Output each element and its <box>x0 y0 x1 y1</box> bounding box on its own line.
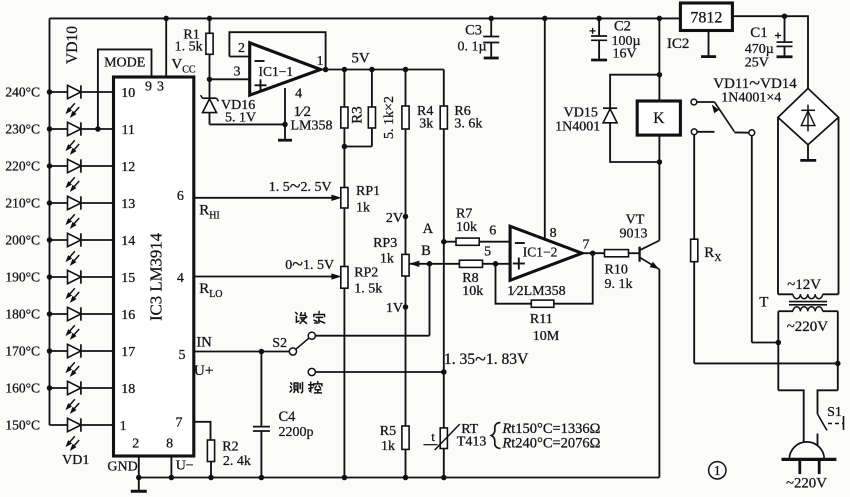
svg-text:~220V: ~220V <box>786 476 827 492</box>
svg-text:13: 13 <box>121 197 135 212</box>
LED VD5 <box>50 276 68 278</box>
capacitor C2 100u 16V <box>598 18 600 36</box>
wire 5V output rail <box>321 69 444 71</box>
svg-text:C2: C2 <box>614 19 631 35</box>
wire +12V top rail <box>50 17 681 19</box>
wire collector up to relay <box>658 135 660 240</box>
svg-text:1N4001: 1N4001 <box>555 119 600 134</box>
wire ground rail <box>139 477 660 479</box>
node bus junction <box>47 200 53 206</box>
resistor R8 10k <box>430 263 460 265</box>
node VD15 bottom junction <box>657 159 663 165</box>
svg-text:R5: R5 <box>380 424 396 439</box>
node R3 pair junction <box>342 144 348 150</box>
LED VD10 <box>50 91 68 93</box>
capacitor C4 2200p <box>260 352 262 427</box>
svg-text:U+: U+ <box>194 362 214 379</box>
wire pin2 stub <box>138 456 140 478</box>
node bus junction <box>47 89 53 95</box>
svg-text:IC3 LM3914: IC3 LM3914 <box>147 232 166 321</box>
svg-text:5: 5 <box>484 245 491 260</box>
LED VD1 <box>50 424 68 426</box>
node rail-R1 junction <box>207 16 213 22</box>
node bus junction <box>47 385 53 391</box>
svg-text:1k: 1k <box>381 439 395 454</box>
node output-feedback junction <box>323 67 329 73</box>
node MODE-pin11 junction <box>95 126 101 132</box>
svg-text:Rt240°C=2076Ω: Rt240°C=2076Ω <box>501 436 600 452</box>
svg-text:IN: IN <box>196 335 212 351</box>
wire pin 4 to ground <box>284 88 286 140</box>
svg-text:6: 6 <box>489 223 496 238</box>
svg-text:3k: 3k <box>419 116 433 131</box>
svg-text:1k: 1k <box>356 200 370 215</box>
relay contact common terminal <box>749 130 755 136</box>
svg-text:U−: U− <box>176 458 194 473</box>
svg-text:230°C: 230°C <box>5 122 40 137</box>
svg-text:1. 5k: 1. 5k <box>175 40 203 55</box>
wire measure contact to RT node <box>315 371 443 373</box>
svg-text:15: 15 <box>121 271 135 286</box>
node B junction <box>427 261 433 267</box>
wire LED cathode to pin <box>81 165 114 167</box>
svg-text:160°C: 160°C <box>5 381 40 396</box>
label SheDing (set) <box>296 312 298 314</box>
svg-text:B: B <box>421 243 431 259</box>
svg-text:18: 18 <box>121 382 135 397</box>
wire relay supply <box>658 18 660 101</box>
op-amp plus sign <box>255 84 267 86</box>
op-amp U1A IC1-1 <box>250 43 321 95</box>
capacitor C1 470u 25V <box>784 16 786 42</box>
wire emitter down to rail <box>658 269 660 477</box>
svg-text:C3: C3 <box>465 23 482 39</box>
node primary right junction <box>835 361 841 367</box>
node primary left junction <box>776 340 782 346</box>
relay coil K <box>637 101 680 135</box>
wire primary left down <box>777 311 779 390</box>
switch S2 blade <box>296 338 309 349</box>
zener diode VD16 5.1V <box>209 79 211 98</box>
wire pin 3 input <box>210 78 250 80</box>
svg-text:150°C: 150°C <box>5 418 40 433</box>
resistor R10 9.1k <box>605 250 629 257</box>
wire RP3 wiper node B <box>409 263 429 265</box>
wire LED cathode to pin <box>81 202 114 204</box>
svg-text:1V: 1V <box>386 301 403 316</box>
MODE box <box>98 49 152 129</box>
svg-text:GND: GND <box>107 459 137 474</box>
svg-text:17: 17 <box>121 345 135 360</box>
wire LED cathode to pin <box>81 128 114 130</box>
wire pin5 IN <box>194 351 289 353</box>
node VD15 top junction <box>657 72 663 78</box>
svg-text:6: 6 <box>177 189 184 204</box>
op-amp plus sign <box>513 263 525 265</box>
switch S2 common <box>289 348 296 355</box>
resistor R3 5.1k <box>343 70 345 108</box>
label CeKong (monitor) <box>291 383 292 385</box>
potentiometer RP3 1k <box>402 254 409 276</box>
switch S2 measure contact <box>308 368 315 375</box>
relay contact top terminal <box>691 99 697 105</box>
svg-text:IC2: IC2 <box>667 36 690 52</box>
svg-text:R11: R11 <box>530 312 553 327</box>
C1 plus sign <box>775 35 781 37</box>
svg-text:1. 5k: 1. 5k <box>354 281 382 296</box>
thermistor RT T413 <box>440 428 447 449</box>
wire bridge AC right <box>838 117 840 294</box>
switch S1 <box>818 414 828 431</box>
svg-text:5. 1V: 5. 1V <box>225 111 256 126</box>
wire set contact to node B <box>315 335 429 337</box>
svg-text:10M: 10M <box>533 329 560 344</box>
transformer core <box>789 301 827 303</box>
wire primary right down <box>837 311 839 390</box>
wire LED cathode to pin <box>81 276 114 278</box>
mains plug ~220V <box>789 442 824 460</box>
svg-text:2: 2 <box>238 41 245 56</box>
svg-text:1: 1 <box>120 419 127 434</box>
svg-text:IC1−1: IC1−1 <box>259 64 294 79</box>
node bus junction <box>47 126 53 132</box>
LED VD7 <box>50 202 68 204</box>
resistor R2 2.4k <box>194 422 211 440</box>
node bus junction <box>47 348 53 354</box>
wire 7812 input <box>732 16 808 88</box>
wire LED cathode to pin <box>81 91 114 93</box>
svg-text:16V: 16V <box>613 46 637 61</box>
diode VD15 1N4001 <box>610 75 659 109</box>
svg-text:4: 4 <box>177 271 184 286</box>
svg-text:12: 12 <box>121 160 135 175</box>
node 1V <box>403 304 409 310</box>
LED VD2 <box>50 387 68 389</box>
svg-text:1: 1 <box>714 463 721 478</box>
label Rt equations <box>491 423 500 449</box>
LED VD8 <box>50 165 68 167</box>
svg-text:2: 2 <box>132 436 139 451</box>
svg-text:1: 1 <box>317 54 324 69</box>
svg-text:RP3: RP3 <box>373 236 397 251</box>
svg-text:R2: R2 <box>222 439 238 454</box>
capacitor C3 0.1u <box>490 18 492 36</box>
transformer T primary ~220V <box>778 310 793 312</box>
svg-text:VD1: VD1 <box>62 453 89 468</box>
wire pin 2 input <box>229 56 249 58</box>
svg-text:1. 35~1. 83V: 1. 35~1. 83V <box>444 349 529 371</box>
node A junction <box>441 239 447 245</box>
svg-text:8: 8 <box>550 226 557 241</box>
wire bridge AC left <box>777 117 779 294</box>
wire LED cathode to pin <box>81 239 114 241</box>
LED VD9 <box>50 128 68 130</box>
svg-text:5. 1k×2: 5. 1k×2 <box>382 96 397 139</box>
svg-text:7: 7 <box>176 415 183 430</box>
svg-text:5V: 5V <box>351 51 370 67</box>
svg-text:210°C: 210°C <box>5 196 40 211</box>
svg-text:~220V: ~220V <box>787 319 829 335</box>
svg-text:RP2: RP2 <box>354 265 378 280</box>
IC2 7812 regulator <box>680 3 732 31</box>
svg-text:1k: 1k <box>380 251 394 266</box>
ground 7812 <box>708 31 710 57</box>
svg-text:T: T <box>759 295 768 311</box>
potentiometer RP1 1k <box>341 188 348 209</box>
wire RHI to RP1 wiper <box>194 197 335 199</box>
wire primary bottom right <box>818 390 838 414</box>
svg-text:1N4001×4: 1N4001×4 <box>721 90 781 105</box>
svg-text:S2: S2 <box>272 336 287 351</box>
ground symbol main <box>138 478 140 491</box>
wire pin 8 supply <box>544 18 546 239</box>
svg-text:9013: 9013 <box>620 227 648 242</box>
svg-text:0. 1µ: 0. 1µ <box>458 39 487 54</box>
svg-text:2. 4k: 2. 4k <box>223 454 251 469</box>
node pin5-R11 junction <box>493 261 499 267</box>
node 2V <box>403 214 409 220</box>
svg-text:10k: 10k <box>456 220 477 235</box>
svg-text:220°C: 220°C <box>5 159 40 174</box>
svg-text:3. 6k: 3. 6k <box>454 116 482 131</box>
resistor R11 10M feedback <box>496 264 532 304</box>
IC U3 LM3914 body <box>114 77 194 456</box>
svg-text:t: t <box>431 429 435 444</box>
svg-text:190°C: 190°C <box>5 270 40 285</box>
svg-text:4: 4 <box>295 86 302 101</box>
svg-text:R3: R3 <box>350 106 366 124</box>
svg-text:S1: S1 <box>827 405 842 420</box>
svg-text:200°C: 200°C <box>5 233 40 248</box>
svg-text:VD15: VD15 <box>564 105 598 120</box>
svg-text:11: 11 <box>121 123 134 138</box>
svg-text:T413: T413 <box>457 434 487 449</box>
svg-text:C1: C1 <box>750 25 768 41</box>
node ceKong junction <box>441 369 447 375</box>
wire feedback loop pin2-output <box>229 32 325 69</box>
wire common contact down <box>751 136 753 343</box>
resistor R7 10k <box>444 241 456 243</box>
wire Vcc to pin 3 <box>165 18 167 77</box>
wire LED anode bus <box>49 18 51 425</box>
transistor VT 9013 <box>638 247 640 262</box>
op-amp minus sign <box>515 242 525 244</box>
svg-text:7812: 7812 <box>690 10 722 27</box>
figure number 1 <box>709 462 726 479</box>
node output junction <box>590 250 596 256</box>
svg-text:2200p: 2200p <box>279 425 314 440</box>
wire VD16 bottom to pin4 <box>210 123 286 125</box>
svg-text:RP1: RP1 <box>356 184 380 199</box>
svg-text:10k: 10k <box>462 284 483 299</box>
svg-text:LM358: LM358 <box>291 118 333 133</box>
svg-text:K: K <box>653 110 665 127</box>
svg-text:VD10: VD10 <box>64 26 81 64</box>
resistor R4 3k <box>405 70 407 107</box>
node bus junction <box>47 163 53 169</box>
svg-text:9. 1k: 9. 1k <box>605 277 633 292</box>
svg-text:170°C: 170°C <box>5 344 40 359</box>
LED VD4 <box>50 313 68 315</box>
svg-text:25V: 25V <box>745 55 769 70</box>
potentiometer RP2 1.5k <box>341 267 348 289</box>
svg-text:IC1−2: IC1−2 <box>523 245 558 260</box>
svg-text:9: 9 <box>145 79 152 94</box>
resistor R6 3.6k <box>443 70 445 107</box>
svg-text:180°C: 180°C <box>5 307 40 322</box>
svg-text:Rt150°C=1336Ω: Rt150°C=1336Ω <box>501 421 600 437</box>
svg-text:MODE: MODE <box>104 55 145 70</box>
svg-text:14: 14 <box>121 234 135 249</box>
op-amp minus sign <box>255 60 265 62</box>
svg-text:2V: 2V <box>386 211 403 226</box>
svg-text:3: 3 <box>157 79 164 94</box>
node bus junction <box>47 274 53 280</box>
svg-text:R10: R10 <box>605 262 628 277</box>
op-amp U1B IC1-2 <box>510 226 582 280</box>
C2 plus sign <box>590 30 596 32</box>
node bus junction <box>47 311 53 317</box>
svg-text:1⁄2LM358: 1⁄2LM358 <box>507 284 565 299</box>
svg-text:VT: VT <box>626 213 645 228</box>
resistor R5 1k <box>402 426 409 449</box>
wire pin8 stub <box>170 456 172 478</box>
LED VD6 <box>50 239 68 241</box>
wire LED cathode to pin <box>81 387 114 389</box>
svg-text:3: 3 <box>234 64 241 79</box>
svg-text:C4: C4 <box>279 409 297 425</box>
svg-text:240°C: 240°C <box>5 85 40 100</box>
wire LED cathode to pin <box>81 350 114 352</box>
wire LED cathode to pin <box>81 313 114 315</box>
node rail junctions <box>136 475 142 481</box>
wire output pin7 <box>582 252 605 254</box>
wire RLO to RP2 wiper <box>194 276 335 278</box>
resistor 5.1k (second of pair) <box>371 70 373 108</box>
svg-text:10: 10 <box>121 86 135 101</box>
wire LED cathode to pin <box>81 424 114 426</box>
wire RX to transformer primary right <box>694 362 838 364</box>
node rail-Vcc junction <box>163 16 169 22</box>
relay contact NC terminal <box>691 129 697 135</box>
node bus junction <box>47 237 53 243</box>
relay contact blade <box>715 102 735 132</box>
node pin4 junction <box>282 122 288 128</box>
wire primary bottom left <box>778 390 803 442</box>
bridge rectifier VD11-VD14 <box>778 88 839 144</box>
ground under op-amp <box>278 139 292 142</box>
svg-text:A: A <box>423 221 434 237</box>
resistor RX <box>691 239 698 262</box>
svg-text:7: 7 <box>583 238 590 253</box>
svg-text:16: 16 <box>121 308 135 323</box>
resistor R1 1.5k <box>209 18 211 33</box>
switch S2 set contact <box>308 332 315 339</box>
svg-text:8: 8 <box>166 436 173 451</box>
svg-text:5: 5 <box>179 348 186 363</box>
svg-text:~12V: ~12V <box>787 277 821 293</box>
wire contact to RX <box>693 135 695 239</box>
node R1/VD16/pin3 junction <box>207 77 213 83</box>
transformer T secondary ~12V <box>778 293 793 295</box>
LED VD3 <box>50 350 68 352</box>
